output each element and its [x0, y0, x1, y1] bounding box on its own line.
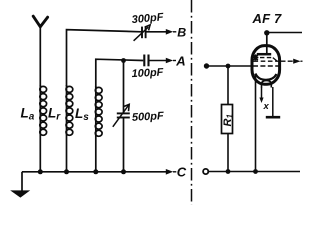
- svg-text:C: C: [177, 165, 187, 180]
- inductor Ls lead to rail: [95, 86, 97, 172]
- wire R1 top lead: [227, 66, 229, 105]
- wire grid feed (terminal, junction, to tube): [204, 63, 252, 68]
- wire 500pF branch lower: [123, 118, 125, 172]
- svg-text:x: x: [263, 101, 270, 112]
- inductor La: [40, 86, 47, 135]
- wire R1 bottom lead: [227, 134, 229, 172]
- node anode top junction: [264, 30, 269, 35]
- junction dot La/rail: [38, 169, 43, 174]
- anode plate bar: [257, 53, 271, 56]
- svg-text:AF 7: AF 7: [252, 11, 283, 26]
- wire anode to right edge: [267, 32, 302, 34]
- heater: [262, 81, 272, 88]
- inductor La lead to rail: [39, 85, 41, 172]
- inductor Lr: [66, 86, 73, 135]
- wire g2 to arrow right: [281, 59, 303, 64]
- junction dot cathode/rail: [253, 169, 258, 174]
- node C arrow: [166, 169, 173, 175]
- capacitor 500pF (variable): [113, 104, 130, 126]
- svg-text:B: B: [177, 26, 186, 40]
- svg-text:La: La: [21, 106, 35, 123]
- svg-text:Lr: Lr: [48, 106, 61, 123]
- junction dot R1 top: [226, 64, 231, 69]
- wire anode lead: [266, 33, 268, 54]
- junction dot Ls/rail: [93, 169, 98, 174]
- heater lead to chassis: [272, 87, 274, 116]
- wire 100pF to node A arrow: [149, 58, 177, 64]
- cathode: [256, 74, 277, 80]
- junction dot Lr/rail: [64, 169, 69, 174]
- wire B branch (vertical + horizontal to 300pF): [67, 30, 142, 86]
- ground: [10, 190, 30, 197]
- svg-text:300pF: 300pF: [131, 11, 164, 26]
- bottom rail wire: [22, 171, 168, 173]
- wire cathode lead down: [255, 74, 257, 172]
- svg-text:500pF: 500pF: [132, 110, 165, 124]
- capacitor C 300pF (variable): [134, 25, 151, 41]
- wire C stub: [173, 171, 176, 173]
- svg-text:100pF: 100pF: [131, 66, 164, 80]
- wire A branch (vertical + horizontal with junction): [96, 59, 144, 87]
- resistor R1: [222, 105, 233, 134]
- capacitor 100pF: [144, 55, 148, 67]
- grid g1 (dashed inside): [253, 65, 279, 67]
- heater lead x (arrow): [259, 87, 263, 103]
- junction dot 500pF/rail: [121, 169, 126, 174]
- grid g3 (dashed, star mark + tie): [253, 54, 277, 61]
- wire 500pF branch upper: [123, 61, 125, 114]
- inductor Lr lead to rail: [66, 85, 68, 172]
- wire 300pF to node B arrow: [146, 29, 177, 35]
- wire rail to ground: [21, 172, 23, 191]
- inductor Ls: [95, 87, 102, 136]
- junction node (A line / 500pF tap): [121, 58, 126, 63]
- svg-text:Ls: Ls: [75, 106, 89, 123]
- svg-text:A: A: [175, 53, 185, 68]
- wire antenna to coil La: [39, 27, 41, 87]
- bottom right rail wire: [209, 171, 300, 173]
- antenna: [33, 16, 47, 27]
- terminal open circle: [203, 169, 208, 174]
- grid g2 (dashed, exits right): [254, 60, 279, 62]
- tube U1 AF7 envelope: [252, 46, 280, 85]
- chassis ground bar: [266, 116, 280, 119]
- junction dot R1 bottom: [226, 169, 231, 174]
- dash-dot separator line: [191, 0, 193, 205]
